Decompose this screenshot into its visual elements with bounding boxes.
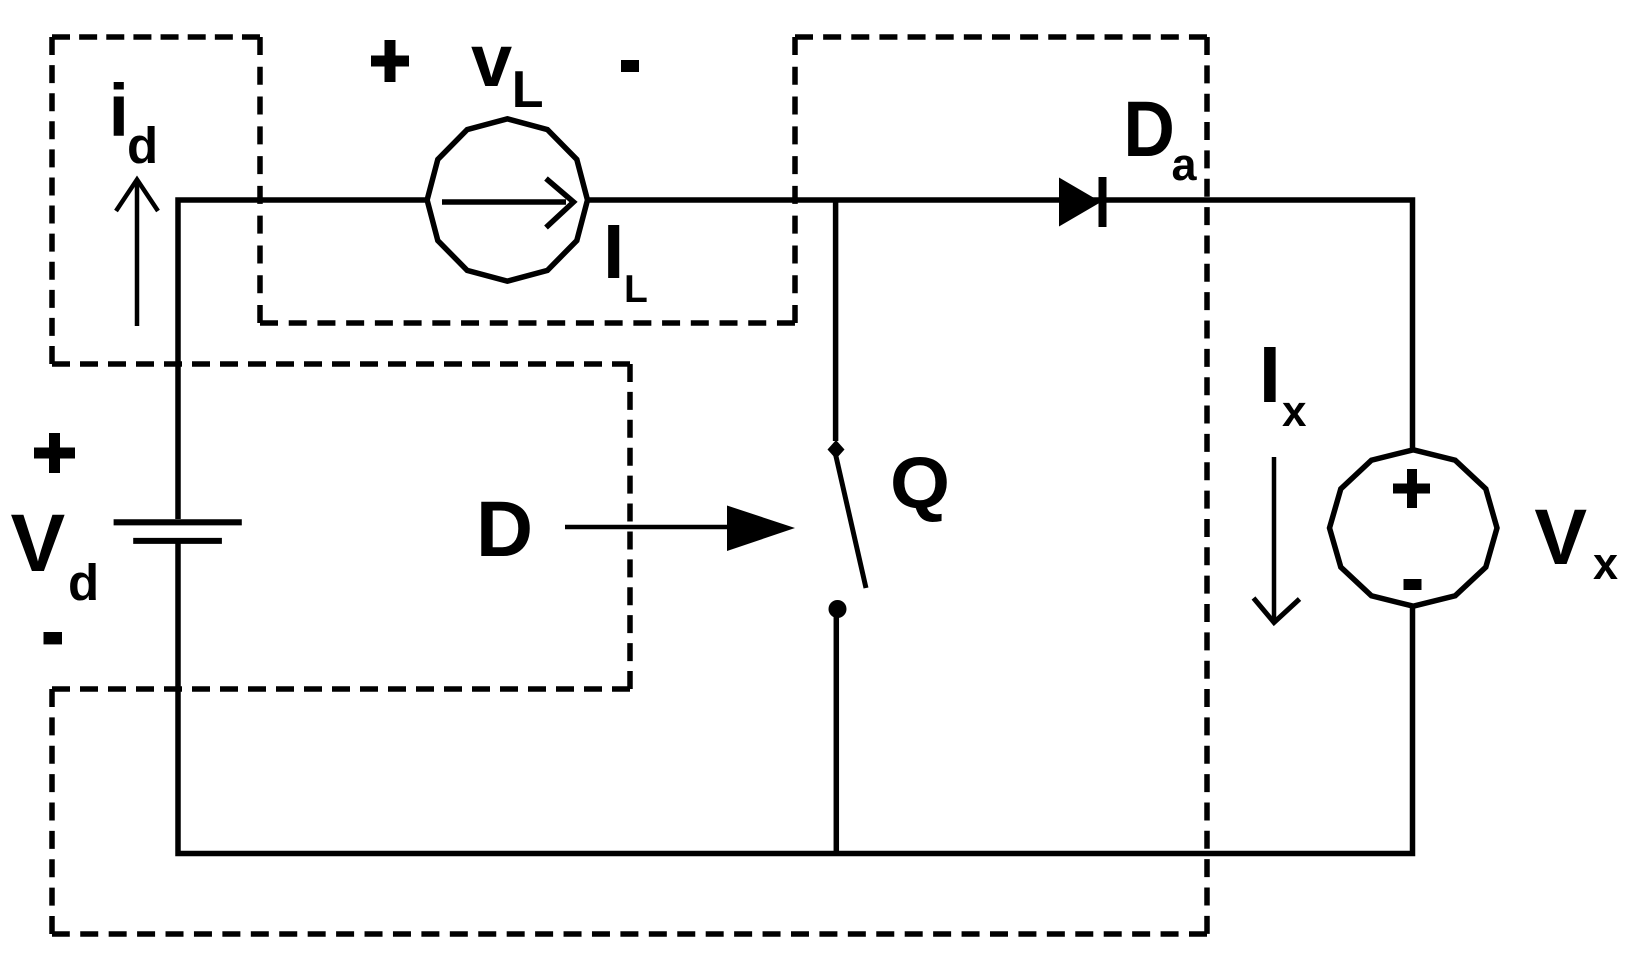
svg-text:L: L — [624, 268, 648, 311]
dashed boundary: inductor block bottom edge — [260, 320, 795, 326]
label - (Vd polarity) — [44, 632, 63, 644]
label + (Vd polarity) — [34, 448, 75, 459]
dashed boundary: source/inductor shared vertical — [257, 37, 263, 323]
svg-text:I: I — [1259, 330, 1281, 419]
battery Vd: long positive plate — [114, 519, 242, 525]
wire: left vertical (upper) + top rail + right vertical (upper) — [178, 200, 1413, 519]
svg-text:x: x — [1593, 538, 1618, 589]
current source IL: arrow shaft — [442, 199, 566, 205]
dashed boundary: source block left edge — [49, 37, 55, 364]
svg-text:a: a — [1172, 139, 1198, 190]
svg-text:d: d — [127, 117, 158, 174]
svg-text:Q: Q — [890, 444, 950, 524]
svg-text:D: D — [1123, 84, 1175, 173]
label + (vL polarity) — [371, 56, 409, 67]
voltage source Vx: minus polarity mark — [1404, 579, 1422, 590]
svg-text:D: D — [476, 484, 533, 573]
dashed boundary: outer left lower edge — [49, 689, 55, 934]
diode Da: cathode bar — [1099, 177, 1107, 227]
arrow: duty-cycle D control arrow head — [727, 506, 795, 552]
svg-text:I: I — [603, 209, 624, 295]
current source IL: arrow chevron head — [546, 179, 574, 228]
arrow: duty-cycle D control arrow shaft — [565, 525, 740, 530]
dashed boundary: switch-network block top edge — [795, 34, 1207, 40]
label - (vL polarity) — [621, 60, 639, 72]
dashed boundary: duty-block top edge — [52, 361, 630, 367]
diode Da: anode triangle — [1059, 178, 1101, 227]
svg-text:x: x — [1282, 387, 1307, 436]
svg-text:V: V — [1534, 492, 1587, 581]
voltage source Vx: circle body — [1330, 450, 1498, 606]
dashed boundary: source block top edge — [52, 34, 260, 40]
battery Vd: short negative plate — [133, 538, 222, 544]
arrow: Ix current arrow shaft — [1272, 457, 1277, 621]
arrow: Ix current arrow head — [1254, 598, 1300, 623]
svg-text:L: L — [512, 61, 544, 119]
dashed boundary: switch-network block right edge — [1204, 37, 1210, 934]
svg-text:i: i — [109, 69, 130, 152]
dashed boundary: inductor-right / switch-network left vertical — [792, 37, 798, 323]
wire: switch upper stub — [833, 200, 839, 441]
svg-text:d: d — [68, 554, 99, 611]
dashed boundary: duty-block bottom edge — [52, 686, 630, 692]
current source IL: circle body — [427, 119, 587, 281]
wire: left vertical (lower) + bottom rail + right vertical (lower) — [178, 541, 1413, 854]
arrow: id current arrow head — [116, 180, 158, 212]
arrow: id current arrow shaft — [135, 180, 140, 326]
wire: switch lower stub — [834, 613, 840, 854]
svg-text:v: v — [471, 19, 512, 102]
svg-text:V: V — [11, 498, 66, 589]
switch Q: lower contact dot — [829, 600, 847, 618]
switch Q: blade — [835, 452, 866, 588]
dashed boundary: duty-block right vertical — [627, 364, 633, 689]
voltage source Vx: plus polarity mark — [1393, 484, 1430, 494]
switch Q: upper contact dot — [828, 440, 845, 459]
dashed boundary: outer bottom edge — [52, 931, 1207, 937]
